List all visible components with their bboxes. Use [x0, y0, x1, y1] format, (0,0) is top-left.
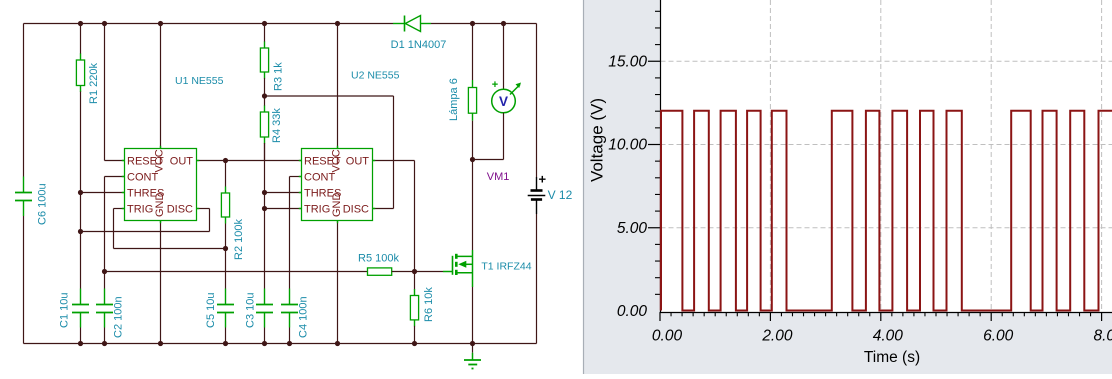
svg-text:C5 10u: C5 10u	[205, 293, 217, 328]
svg-text:V: V	[499, 94, 508, 109]
svg-text:TRIG: TRIG	[127, 203, 153, 215]
svg-text:R5 100k: R5 100k	[358, 253, 399, 265]
svg-text:TRIG: TRIG	[304, 203, 330, 215]
svg-text:DISC: DISC	[343, 203, 369, 215]
svg-text:8.00: 8.00	[1094, 328, 1112, 345]
svg-text:VM1: VM1	[487, 171, 510, 183]
svg-text:C3 10u: C3 10u	[245, 293, 257, 328]
svg-text:U1 NE555: U1 NE555	[175, 75, 224, 87]
svg-text:+: +	[492, 79, 498, 91]
svg-text:DISC: DISC	[167, 203, 193, 215]
svg-text:R4 33k: R4 33k	[271, 108, 283, 143]
svg-text:D1 1N4007: D1 1N4007	[391, 39, 447, 51]
svg-text:R2 100k: R2 100k	[233, 219, 245, 260]
svg-text:+: +	[539, 172, 547, 187]
svg-text:Voltage (V): Voltage (V)	[588, 98, 607, 182]
svg-text:5.00: 5.00	[617, 220, 648, 237]
svg-text:C4 100n: C4 100n	[298, 296, 310, 338]
svg-text:0.00: 0.00	[617, 303, 648, 320]
svg-text:OUT: OUT	[346, 155, 370, 167]
svg-text:Lámpa 6: Lámpa 6	[448, 78, 460, 121]
svg-text:V 12: V 12	[548, 188, 573, 202]
svg-text:6.00: 6.00	[983, 328, 1014, 345]
svg-text:4.00: 4.00	[873, 328, 904, 345]
svg-text:15.00: 15.00	[608, 53, 647, 70]
svg-text:C1 10u: C1 10u	[59, 293, 71, 328]
svg-text:R6 10k: R6 10k	[423, 287, 435, 322]
svg-text:VCC: VCC	[154, 149, 166, 172]
svg-text:10.00: 10.00	[608, 137, 647, 154]
svg-text:T1 IRFZ44: T1 IRFZ44	[481, 261, 531, 273]
svg-text:R3 1k: R3 1k	[273, 62, 285, 91]
svg-text:Time (s): Time (s)	[864, 349, 920, 366]
svg-text:C6 100u: C6 100u	[37, 183, 49, 225]
svg-text:GND: GND	[331, 193, 343, 218]
svg-text:VCC: VCC	[331, 149, 343, 172]
svg-text:GND: GND	[154, 193, 166, 218]
svg-text:2.00: 2.00	[761, 328, 793, 345]
svg-text:OUT: OUT	[170, 155, 194, 167]
svg-text:0.00: 0.00	[652, 328, 683, 345]
svg-text:U2 NE555: U2 NE555	[351, 70, 400, 82]
svg-text:C2 100n: C2 100n	[113, 296, 125, 338]
svg-text:R1 220k: R1 220k	[88, 63, 100, 104]
